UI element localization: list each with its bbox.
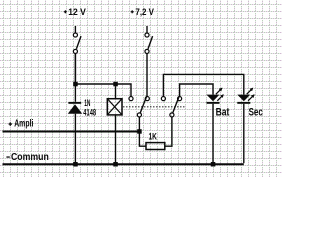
wire node A across to relay contact K1 NC terminal <box>75 84 131 96</box>
label D1 value 1N 4148 <box>83 98 96 118</box>
svg-text:12 V: 12 V <box>68 7 86 18</box>
svg-text:Bat: Bat <box>216 107 230 119</box>
wire diode D1 anode down to Commun rail <box>74 114 76 164</box>
relay contact K1 (changeover) <box>129 96 149 117</box>
wire contact K2 NC terminal up and over to LED Sec anode <box>163 74 243 96</box>
power net label +12 V <box>64 7 86 18</box>
svg-text:7,2 V: 7,2 V <box>135 7 154 18</box>
LED Bat <box>207 88 224 104</box>
junction LED Bat cathode on Commun rail <box>211 162 216 167</box>
svg-text:4148: 4148 <box>83 108 96 118</box>
junction node A <box>73 82 78 87</box>
svg-text:1K: 1K <box>149 131 158 141</box>
svg-text:Ampli: Ampli <box>14 119 33 130</box>
relay coil RL1 <box>107 99 122 115</box>
wire switch S2 down to contact K1 NO terminal <box>146 54 148 97</box>
power net label +7,2 V <box>131 7 155 18</box>
relay contact K2 (changeover) <box>161 96 181 117</box>
wire node A tap down to relay coil <box>115 86 117 99</box>
rail +Ampli <box>3 131 140 133</box>
wire resistor R1 right lead up to contact K2 common <box>165 117 172 146</box>
junction relay coil return on Commun rail <box>113 162 118 167</box>
wire +12V feed to switch S1 <box>74 26 76 33</box>
wire contact K1 common down to resistor R1 left lead <box>139 117 146 146</box>
wire node A down to diode D1 cathode <box>74 54 76 102</box>
wire +7,2V feed to switch S2 <box>146 26 148 33</box>
switch S1 (12 V) <box>73 33 81 54</box>
wire relay coil bottom down to Commun rail <box>115 115 117 163</box>
switch S2 (7,2 V) <box>145 33 153 54</box>
wire LED Bat cathode down to Commun rail <box>212 104 214 163</box>
wire LED Sec cathode down to Commun rail <box>243 104 245 163</box>
svg-text:1N: 1N <box>84 98 90 108</box>
rail -Commun <box>3 163 244 165</box>
resistor R1 <box>146 143 165 150</box>
wire switch S1 down to node A <box>74 54 76 83</box>
diode D1 <box>68 102 82 114</box>
mechanical link dotted line coil to contacts <box>123 106 185 108</box>
net label - Commun <box>6 152 48 163</box>
junction diode D1 anode on Commun rail <box>73 162 78 167</box>
svg-text:Commun: Commun <box>11 152 49 163</box>
svg-text:Sec: Sec <box>249 107 263 119</box>
LED Sec <box>237 88 254 104</box>
wire contact K2 NO terminal up and over to LED Bat anode <box>180 84 213 96</box>
net label + Ampli <box>9 119 34 130</box>
junction coil tap <box>113 82 118 87</box>
junction Ampli rail / K1 common / R1 <box>137 129 142 134</box>
